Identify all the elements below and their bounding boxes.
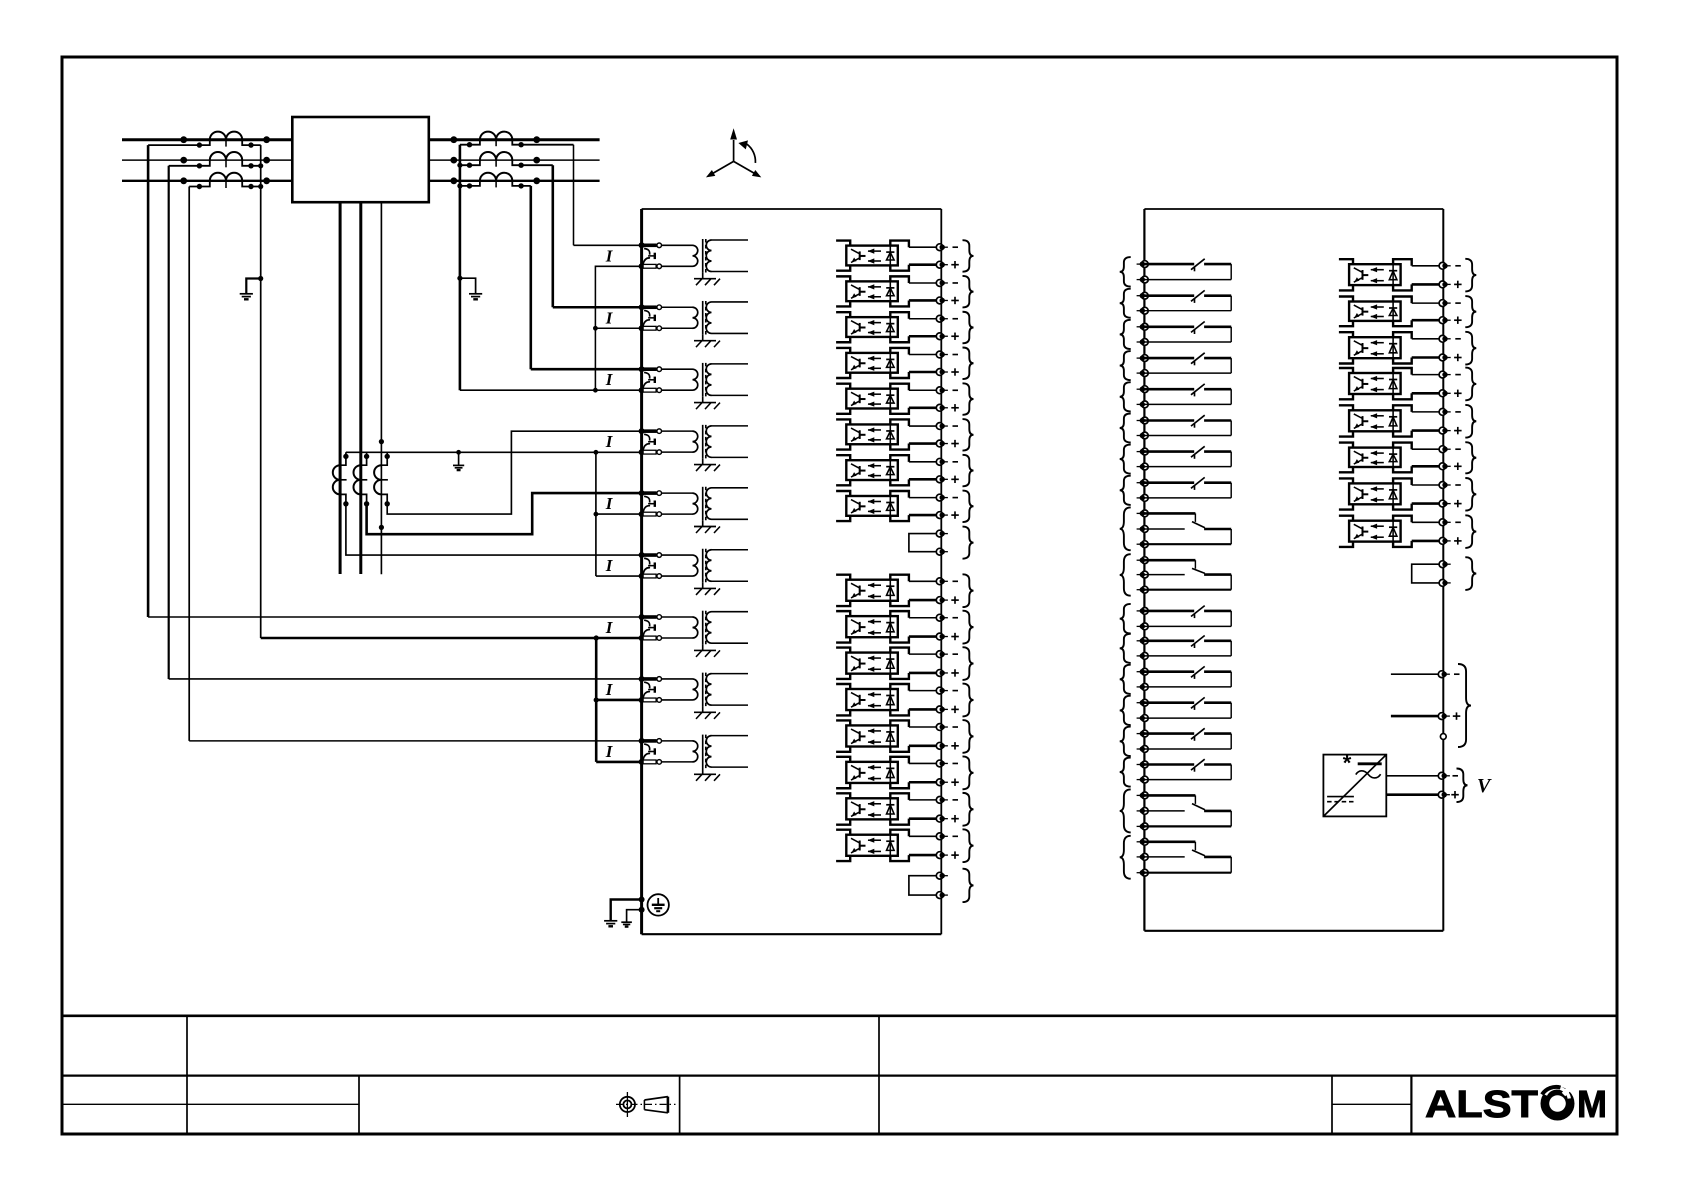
brace of contact K14	[1120, 696, 1131, 725]
power supply unit box	[1323, 755, 1386, 817]
terminal - of O11	[936, 651, 948, 658]
opto input contact K6 terminals	[1137, 417, 1149, 439]
contact K12 blade	[1191, 636, 1205, 649]
terminal - of R7	[1439, 482, 1451, 489]
wires input I2 to matching transformer	[662, 307, 693, 328]
title block divider x=879	[878, 1016, 880, 1134]
earth lead left CT group	[246, 279, 260, 294]
current transformer CT-L2 on bus B	[169, 152, 270, 168]
optocoupler R3	[1339, 332, 1439, 363]
wires input I4 to matching transformer	[662, 431, 693, 452]
current transformer CT-R1 on bus A	[450, 132, 573, 148]
terminal pair brace of O3	[963, 312, 974, 344]
contact K6 wiring loop	[1144, 421, 1231, 436]
optocoupler O9	[836, 575, 936, 606]
phase drop line C from block	[380, 202, 382, 574]
polarity labels of O5	[951, 390, 959, 411]
opto input contact K5 terminals	[1137, 386, 1149, 408]
brace V group	[1457, 769, 1468, 803]
terminal pair brace of O7	[963, 455, 974, 487]
optocoupler R6	[1339, 443, 1439, 473]
psu sine wave	[1356, 771, 1381, 778]
polarity labels of O8	[951, 498, 959, 519]
contact K15 blade	[1191, 728, 1205, 741]
phase bus A (left segment)	[122, 138, 292, 141]
wire to row9 top terminal	[189, 740, 641, 742]
terminal pair brace of O11	[963, 647, 974, 680]
terminal - of O7	[936, 458, 948, 465]
polarity labels of O15	[951, 800, 959, 823]
polarity labels of O16	[951, 836, 959, 859]
junction dot row8 bottom chain	[594, 697, 599, 702]
wire CT-L2 left tap down, feeds input row8 top	[168, 166, 170, 679]
ground of transformer T9	[694, 769, 720, 781]
battery positive lead (thick)	[1391, 715, 1438, 718]
contact K13 wiring loop	[1144, 672, 1231, 687]
contact K14 wiring loop	[1144, 703, 1231, 718]
terminal pair brace of R1	[1465, 259, 1476, 292]
brace shorted pair box2	[1465, 557, 1476, 590]
terminal + of O6	[936, 440, 948, 447]
optocoupler R8	[1339, 516, 1439, 547]
terminal shorted pair g2 lower	[936, 892, 948, 899]
title block row2 horizontal split left	[62, 1103, 359, 1105]
polarity labels of O9	[951, 581, 959, 604]
wire CT-L1 left tap down, feeds input row7 top	[147, 145, 150, 617]
wire chain to row8 bottom terminal	[596, 699, 641, 702]
title block row2 divider x=1332	[1331, 1076, 1333, 1134]
terminal - of O14	[936, 760, 948, 767]
optocoupler O7	[836, 455, 936, 485]
opto input contact K16 terminals	[1137, 761, 1149, 783]
terminal battery -	[1438, 671, 1450, 678]
terminal + of R5	[1439, 427, 1451, 434]
wire common chain vertical x=596.2	[595, 638, 598, 762]
wire chain to row9 bottom terminal	[596, 761, 641, 764]
contact K9 wiring loop	[1144, 513, 1231, 544]
junction dot right earth connection	[457, 276, 462, 281]
terminal + of R2	[1439, 317, 1451, 324]
wire to row7 top terminal	[148, 616, 641, 618]
optocoupler O14	[836, 757, 936, 788]
brace of contact K11	[1120, 604, 1131, 634]
contact K7 blade	[1191, 446, 1205, 459]
terminal - of O3	[936, 315, 948, 322]
junction dot CT-L3 tap on common	[258, 184, 263, 189]
wire CT-R1 common vertical x=459.9 (thick)	[459, 145, 462, 391]
terminal shorted pair g1 lower	[936, 548, 948, 555]
terminal + of O7	[936, 476, 948, 483]
optocoupler R2	[1339, 297, 1439, 327]
wires input I7 to matching transformer	[662, 617, 693, 638]
contact K1 wiring loop	[1144, 264, 1231, 280]
optocoupler O13	[836, 720, 936, 751]
contact K5 wiring loop	[1144, 389, 1231, 404]
phase drop line B from block	[359, 202, 362, 574]
terminal + of R6	[1439, 463, 1451, 470]
label battery -	[1454, 673, 1460, 675]
contact K8 blade	[1191, 477, 1205, 490]
terminal - of O9	[936, 578, 948, 585]
wire chain to row5 bottom terminal	[596, 513, 642, 515]
ground right CT group	[469, 293, 482, 295]
wire winding W3 tap to row4 top	[387, 431, 641, 514]
contact K4 blade	[1191, 353, 1205, 366]
ground of transformer T7	[694, 645, 720, 657]
phase bus C (right segment)	[429, 180, 600, 182]
contact K3 wiring loop	[1144, 327, 1231, 342]
wire CT-L3 left tap down, feeds input row9 top	[188, 187, 190, 741]
terminal shorted pair g2 upper	[936, 872, 948, 879]
title block top line	[62, 1014, 1617, 1017]
terminal - of R5	[1439, 409, 1451, 416]
optocoupler O5	[836, 384, 936, 414]
wire CT-R1 tap down x=573.5 feeds row1 top	[573, 145, 575, 246]
wires input I1 to matching transformer	[662, 245, 693, 266]
terminal + of R3	[1439, 354, 1451, 361]
terminal - of O13	[936, 724, 948, 731]
matching transformer T2	[693, 301, 749, 335]
polarity labels of R3	[1454, 339, 1462, 361]
shorted terminal pair box1 group2	[909, 876, 937, 895]
wires input I3 to matching transformer	[662, 369, 693, 390]
opto input contact K11 terminals	[1137, 608, 1149, 630]
wire winding W1 tap to row6 top	[346, 504, 642, 555]
junction dot on phase C drop at y=527.4	[379, 525, 384, 530]
junction dot CT-R3 tap on common	[457, 183, 462, 188]
optocoupler O6	[836, 419, 936, 449]
contact K18 blade	[1192, 850, 1205, 856]
ground of transformer T2	[694, 335, 720, 347]
current input I8 terminals	[639, 676, 662, 703]
case earth terminal dots box1	[639, 897, 645, 913]
terminal pair brace of O6	[963, 419, 974, 451]
current input I2 terminals	[639, 304, 662, 331]
terminal + of O5	[936, 404, 948, 411]
ground of transformer T1	[694, 273, 720, 285]
terminal + of R7	[1439, 500, 1451, 507]
V output negative lead	[1386, 775, 1438, 777]
title block row2 divider x=679.6	[679, 1076, 681, 1134]
optocoupler R1	[1339, 259, 1439, 290]
opto input contact K4 terminals	[1137, 355, 1149, 377]
terminal + of O12	[936, 706, 948, 713]
polarity labels of O12	[951, 691, 959, 714]
terminal + of O13	[936, 742, 948, 749]
wires input I6 to matching transformer	[662, 555, 693, 576]
contact K14 blade	[1191, 697, 1205, 710]
matching transformer T6	[693, 549, 749, 583]
contact K11 wiring loop	[1144, 611, 1231, 627]
terminal pair brace of O13	[963, 720, 974, 753]
optocoupler O1	[836, 241, 936, 271]
terminal + of R8	[1439, 538, 1451, 545]
label battery +	[1453, 715, 1461, 717]
opto input contact K1 terminals	[1137, 261, 1149, 283]
brace of contact K17	[1120, 789, 1131, 832]
current input I9 terminals	[639, 738, 662, 765]
terminal - of O5	[936, 387, 948, 394]
wire to row8 top terminal	[169, 678, 642, 680]
ground left CT group	[240, 293, 253, 295]
junction dot row7 bottom chain	[594, 635, 599, 640]
polarity labels of R7	[1454, 485, 1462, 507]
wire chain to row6 bottom terminal	[596, 575, 642, 577]
terminal pair brace of O1	[963, 240, 974, 272]
relay box1 left bus	[640, 209, 643, 934]
optocoupler O16	[836, 830, 936, 861]
optocoupler O11	[836, 648, 936, 679]
matching transformer T1	[693, 239, 749, 273]
title block small cell horizontal split	[1332, 1103, 1411, 1105]
phase drop line A from block	[339, 202, 342, 574]
battery negative lead	[1391, 673, 1438, 675]
polarity labels of R6	[1454, 449, 1462, 470]
neutral CT winding W2 on phase B drop	[354, 452, 370, 506]
V output positive lead (thick)	[1386, 793, 1438, 796]
wire CT-R common to row3 bottom node	[460, 389, 596, 391]
terminal - of O8	[936, 494, 948, 501]
optocoupler R5	[1339, 405, 1439, 436]
junction dot row3 bottom node	[593, 388, 598, 393]
polarity labels of O7	[951, 462, 959, 483]
junction dot common bus chain x=595.9	[594, 450, 599, 455]
relay box2 left bus	[1143, 209, 1145, 931]
matching transformer T4	[693, 425, 749, 459]
terminal pair brace of O8	[963, 491, 974, 523]
polarity labels of O1	[951, 247, 959, 268]
earth lead right CT group	[460, 278, 476, 293]
optocoupler R7	[1339, 478, 1439, 509]
polarity labels of R4	[1454, 375, 1462, 397]
brace of contact K13	[1120, 665, 1131, 694]
matching transformer T9	[693, 735, 749, 769]
terminal + of O3	[936, 333, 948, 340]
brace of contact K4	[1120, 351, 1131, 380]
brace of contact K2	[1120, 289, 1131, 318]
brace of contact K3	[1120, 320, 1131, 349]
terminal pair brace of R3	[1465, 332, 1476, 365]
optocoupler O12	[836, 684, 936, 715]
terminal + of O15	[936, 815, 948, 822]
wire CT-L common return vertical x=260.7	[260, 145, 262, 638]
brace of contact K7	[1120, 445, 1131, 474]
terminal - of R1	[1439, 262, 1451, 269]
terminal + of O9	[936, 597, 948, 604]
terminal - of R3	[1439, 335, 1451, 342]
brace of contact K12	[1120, 634, 1131, 663]
terminal pair brace of O12	[963, 684, 974, 717]
opto input contact K13 terminals	[1137, 668, 1149, 690]
ALSTOM logo	[1425, 1084, 1607, 1126]
relay box1 top edge	[642, 208, 942, 210]
ground of transformer T3	[694, 397, 720, 409]
earth lead 2 box1	[627, 910, 642, 922]
contact K6 blade	[1191, 415, 1205, 428]
current input I4 terminals	[639, 428, 662, 455]
polarity labels of O11	[951, 654, 959, 677]
wires input I5 to matching transformer	[662, 493, 693, 514]
opto input contact K14 terminals	[1137, 699, 1149, 721]
wire winding W2 tap to row5 top (thick)	[367, 493, 642, 534]
opto input contact K18 terminals (3)	[1137, 838, 1149, 876]
wires input I8 to matching transformer	[662, 679, 693, 700]
contact K17 blade	[1192, 804, 1205, 810]
terminal - of O16	[936, 833, 948, 840]
optocoupler R4	[1339, 368, 1439, 399]
terminal pair brace of O14	[963, 756, 974, 789]
earth stem neutral CT common	[458, 452, 460, 465]
terminal + of O10	[936, 633, 948, 640]
svg-text:M: M	[1577, 1084, 1607, 1126]
terminal pair brace of R8	[1465, 515, 1476, 548]
brace shorted pair g2	[963, 869, 974, 902]
terminal - of O4	[936, 351, 948, 358]
label V +	[1451, 794, 1459, 796]
brace shorted pair g1	[963, 527, 974, 559]
terminal - of R2	[1439, 300, 1451, 307]
junction dot CT-R2 tap on common	[457, 163, 462, 168]
contact K8 wiring loop	[1144, 483, 1231, 498]
svg-text:*: *	[1343, 751, 1352, 776]
contact K18 wiring loop	[1144, 842, 1231, 873]
terminal + of R4	[1439, 390, 1451, 397]
opto input contact K2 terminals	[1137, 292, 1149, 314]
matching transformer T7	[693, 611, 749, 645]
polarity labels of O2	[951, 283, 959, 304]
neutral CT winding W1 on phase A drop	[333, 452, 349, 506]
shorted terminal pair box1 group1	[909, 534, 937, 552]
current input I5 terminals	[639, 490, 662, 517]
polarity labels of O3	[951, 319, 959, 340]
matching transformer T5	[693, 487, 749, 521]
terminal pair brace of O16	[963, 829, 974, 862]
polarity labels of O14	[951, 763, 959, 786]
terminal shorted pair g1 upper	[936, 530, 948, 537]
terminal - of R6	[1439, 446, 1451, 453]
opto input contact K9 terminals (3)	[1137, 510, 1149, 548]
terminal shorted pair box2 lower	[1439, 580, 1451, 587]
polarity labels of R5	[1454, 412, 1462, 434]
earth lead 1 box1	[611, 900, 642, 921]
protective earth symbol box1	[648, 894, 669, 915]
current transformer CT-R2 on bus B	[450, 152, 552, 168]
wire common to row7 bottom terminal (thick)	[261, 637, 642, 640]
current transformer CT-L1 on bus A	[148, 132, 270, 148]
ground of transformer T8	[694, 707, 720, 719]
ground 2 box1	[621, 921, 632, 923]
opto input contact K3 terminals	[1137, 323, 1149, 345]
contact K16 wiring loop	[1144, 765, 1231, 780]
wire to row1 top terminal	[574, 244, 642, 246]
svg-text:V: V	[1477, 775, 1492, 797]
current transformer CT-R3 on bus C	[450, 173, 540, 189]
shorted terminal pair box2	[1412, 564, 1440, 583]
terminal pair brace of R6	[1465, 442, 1476, 473]
ground 1 box1	[604, 920, 617, 922]
terminal shorted pair box2 upper	[1439, 561, 1451, 568]
contact K5 blade	[1191, 384, 1205, 397]
contact K9 blade	[1192, 522, 1205, 528]
case earth terminal (small circle)	[1440, 734, 1446, 740]
terminal + of O2	[936, 297, 948, 304]
brace of contact K5	[1120, 382, 1131, 411]
junction dot row2 bottom on chain	[593, 326, 598, 331]
terminal pair brace of O4	[963, 348, 974, 380]
terminal + of O16	[936, 852, 948, 859]
contact K1 blade	[1191, 259, 1205, 272]
contact K4 wiring loop	[1144, 358, 1231, 373]
junction dot row5 bottom on chain	[594, 512, 599, 517]
terminal - of O2	[936, 280, 948, 287]
terminal - of R8	[1439, 519, 1451, 526]
contact K10 blade	[1192, 568, 1205, 573]
contact K2 blade	[1191, 290, 1205, 303]
brace power supply group	[1458, 664, 1471, 747]
polarity labels of O6	[951, 426, 959, 447]
brace of contact K15	[1120, 727, 1131, 756]
relay box2 terminal bus (right)	[1442, 209, 1444, 931]
junction dot left earth connection	[258, 276, 263, 281]
title block middle line	[62, 1074, 1617, 1076]
current input I6 terminals	[639, 552, 662, 579]
terminal pair brace of O5	[963, 383, 974, 415]
polarity labels of O10	[951, 618, 959, 641]
current input I7 terminals	[639, 614, 662, 641]
opto input contact K7 terminals	[1137, 448, 1149, 470]
current transformer CT-L3 on bus C	[180, 173, 270, 189]
brace of contact K16	[1120, 758, 1131, 787]
ground of transformer T6	[694, 583, 720, 595]
wire chain to row2 bottom terminal	[595, 327, 641, 329]
psu AC bar	[1358, 762, 1382, 765]
first-angle projection symbol	[616, 1092, 676, 1117]
brace of contact K1	[1120, 257, 1131, 287]
terminal V -	[1438, 772, 1450, 779]
terminal pair brace of R2	[1465, 296, 1476, 327]
contact K13 blade	[1191, 666, 1205, 679]
generator block	[292, 117, 429, 202]
junction dot CT-L2 tap on common	[258, 163, 263, 168]
terminal + of O14	[936, 779, 948, 786]
contact K7 wiring loop	[1144, 452, 1231, 467]
contact K2 wiring loop	[1144, 296, 1231, 311]
ground of transformer T5	[694, 521, 720, 533]
current input I3 terminals	[639, 366, 662, 393]
terminal - of R4	[1439, 371, 1451, 378]
opto input contact K10 terminals (3)	[1137, 557, 1149, 593]
polarity labels of R1	[1454, 266, 1462, 288]
optocoupler O10	[836, 611, 936, 642]
brace of contact K10	[1120, 554, 1131, 596]
polarity labels of R8	[1454, 522, 1462, 544]
label V -	[1453, 775, 1459, 777]
wire common chain vertical x=595.9	[595, 452, 597, 576]
brace of contact K8	[1120, 476, 1131, 505]
wire CT-R2 tap down x=552.8 feeds row2 top (thick)	[551, 165, 554, 307]
relay box2 bottom edge	[1144, 930, 1443, 932]
neutral CT winding W3 on phase C drop	[374, 452, 390, 506]
opto input contact K8 terminals	[1137, 479, 1149, 501]
junction dot earth on neutral common bus	[456, 450, 461, 455]
contact K3 blade	[1191, 322, 1205, 335]
terminal + of O1	[936, 261, 948, 268]
terminal + of R1	[1439, 281, 1451, 288]
wires input I9 to matching transformer	[662, 741, 693, 762]
matching transformer T3	[693, 363, 749, 397]
psu DC solid line	[1327, 796, 1354, 798]
title block row1 divider x=187	[186, 1016, 188, 1134]
